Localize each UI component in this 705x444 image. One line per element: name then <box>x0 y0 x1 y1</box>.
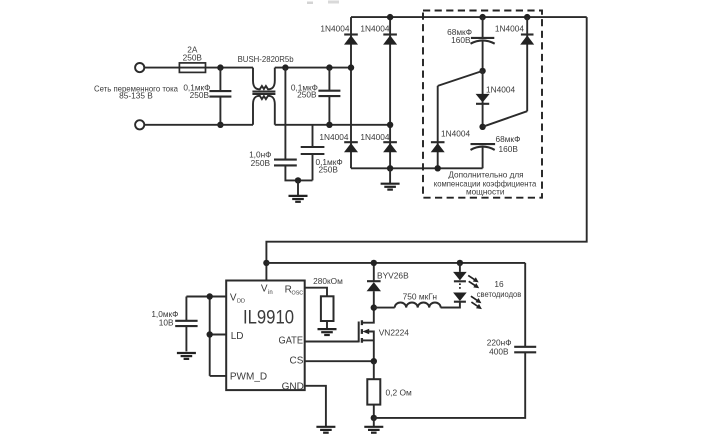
svg-text:светодиодов: светодиодов <box>477 289 522 299</box>
wire: branch rail to BYV26B, LEDs and output cap <box>266 262 525 264</box>
LED 2 (string of 16) <box>453 293 467 302</box>
diode 1N4004 (bridge top-left) <box>344 33 358 35</box>
svg-text:OSC: OSC <box>292 291 304 297</box>
LED 1 (string of 16) <box>459 263 461 272</box>
diode 1N4004 (bridge top-right) <box>383 33 397 35</box>
wire: AC line 2 after choke to bridge <box>275 124 390 126</box>
wire: bridge column 1 <box>350 17 352 168</box>
node: left column on DC- rail <box>435 165 441 171</box>
capacitor 0,1мкФ 250В (input X-cap) <box>219 68 221 92</box>
svg-text:750 мкГн: 750 мкГн <box>403 292 438 302</box>
node: Vin branch to output stage <box>263 260 269 266</box>
wire: fuse to choke (AC line 1) <box>206 67 254 69</box>
svg-text:LD: LD <box>231 331 244 342</box>
wire: VDD/LD/PWM_D tie line <box>209 297 211 376</box>
wire: AC line 2 from terminal to choke <box>144 124 253 126</box>
terminal: AC input line 2 <box>135 120 144 129</box>
svg-text:16: 16 <box>494 279 504 289</box>
node: Y-cap tap on AC line 1 <box>282 64 288 70</box>
ground (Rosc resistor) <box>318 329 337 335</box>
op-amp/IC IL9910 U1 <box>226 281 305 391</box>
wire: PWM_D lead <box>210 375 227 377</box>
svg-text:1N4004: 1N4004 <box>360 132 389 142</box>
svg-text:V: V <box>261 284 268 295</box>
node: PFC lower node B <box>479 124 485 130</box>
capacitor 220нФ 400В (output) <box>514 347 536 353</box>
svg-text:250В: 250В <box>319 165 339 175</box>
svg-text:Дополнительно для: Дополнительно для <box>448 171 523 180</box>
node: sense resistor bottom <box>371 415 377 421</box>
node: column 2 bottom <box>387 165 393 171</box>
node: PFC center node A <box>479 68 485 74</box>
node: junction at input X-cap bottom <box>217 122 223 128</box>
resistor 280кОм (Rosc) <box>305 288 327 297</box>
svg-text:0,2 Ом: 0,2 Ом <box>386 387 412 397</box>
scan artifact top edge <box>307 2 313 5</box>
svg-text:BUSH-2820R5b: BUSH-2820R5b <box>238 54 294 64</box>
resistor 0,2 Ом (sense) <box>373 361 375 379</box>
node: top rail tap for 68мкФ (upper) <box>479 14 485 20</box>
LED 2 emission arrows <box>471 296 479 301</box>
svg-text:160В: 160В <box>451 35 471 45</box>
node: branch rail tap at BYV26B <box>371 260 377 266</box>
node: drain/inductor/diode junction <box>371 304 377 310</box>
node: column 2 top <box>387 14 393 20</box>
capacitor 1,0нФ 250В (Y-cap, crosses AC line 2 without junction) <box>284 68 286 160</box>
wire: GATE lead <box>305 341 359 343</box>
node: tie at LD <box>207 331 213 337</box>
svg-text:1N4004: 1N4004 <box>495 24 524 34</box>
wire: DC+ top rail <box>351 16 587 18</box>
diode 1N4004 (PFC right column) <box>526 17 528 111</box>
dashed box: optional PFC section <box>423 11 542 198</box>
node: top rail tap for right 1N4004 <box>524 14 530 20</box>
svg-text:250В: 250В <box>183 52 203 62</box>
diode 1N4004 (bridge bottom-right) <box>383 141 397 143</box>
ground (Y-caps) <box>297 180 299 195</box>
diode 1N4004 (PFC middle, pointing down) <box>482 71 484 127</box>
svg-text:PWM_D: PWM_D <box>230 372 267 383</box>
terminal: AC input line 1 <box>135 63 144 72</box>
svg-text:68мкФ: 68мкФ <box>496 134 521 144</box>
diode 1N4004 (bridge bottom-left) <box>344 141 358 143</box>
svg-text:85-135 В: 85-135 В <box>119 91 153 101</box>
node: branch rail tap at LED string <box>457 260 463 266</box>
svg-text:10В: 10В <box>159 317 174 327</box>
capacitor 0,1мкФ 250В (Y-cap on AC line 2) <box>312 125 314 147</box>
wire: VDD rail to bypass cap <box>186 296 226 298</box>
ground (VDD bypass cap) <box>177 353 196 359</box>
wire: diagonal from node A to left column <box>438 71 483 86</box>
svg-text:IL9910: IL9910 <box>243 307 294 329</box>
node: AC line 1 tap on column 1 <box>348 64 354 70</box>
svg-text:250В: 250В <box>251 158 271 168</box>
svg-text:250В: 250В <box>190 90 210 100</box>
svg-text:DD: DD <box>237 299 245 305</box>
node: CS/source junction <box>371 358 377 364</box>
capacitor 0,1мкФ 250В (X-cap after choke) <box>328 68 330 91</box>
svg-text:280кОм: 280кОм <box>313 276 343 286</box>
inductor 750 мкГн <box>374 307 395 309</box>
svg-text:V: V <box>230 292 237 303</box>
fuse 2A 250В <box>179 63 205 73</box>
wire: CS lead to source <box>305 360 374 362</box>
wire: output return loop <box>374 263 525 418</box>
svg-text:1N4004: 1N4004 <box>486 84 515 94</box>
svg-text:1N4004: 1N4004 <box>360 24 389 34</box>
wire: GND pin to ground <box>305 386 326 427</box>
node: junction at input X-cap top <box>217 64 223 70</box>
svg-text:400В: 400В <box>489 346 509 356</box>
node: AC line 2 tap on column 2 <box>387 122 393 128</box>
node: Y-caps common point <box>295 177 301 183</box>
ground (sense resistor) <box>373 418 375 427</box>
svg-text:VN2224: VN2224 <box>379 327 410 337</box>
transistor VN2224 (n-MOSFET) <box>358 322 360 343</box>
svg-text:1N4004: 1N4004 <box>319 132 348 142</box>
wire: diagonal from node B to right column <box>483 111 528 127</box>
svg-text:BYV26B: BYV26B <box>377 271 409 281</box>
LED 1 emission arrows <box>468 275 476 280</box>
wire: AC line 1 from terminal to fuse <box>144 67 179 69</box>
capacitor 68мкФ 160В (lower electrolytic) <box>471 143 496 145</box>
svg-text:GATE: GATE <box>279 336 304 347</box>
ground (GND pin) <box>316 427 335 433</box>
node: X-cap after choke, top <box>326 64 332 70</box>
svg-text:1N4004: 1N4004 <box>441 129 470 139</box>
node: tie at VDD <box>207 293 213 299</box>
diode 1N4004 (PFC left column) <box>437 86 439 168</box>
svg-text:1N4004: 1N4004 <box>320 24 349 34</box>
capacitor 68мкФ 160В (upper electrolytic) <box>482 17 484 38</box>
svg-text:250В: 250В <box>297 90 317 100</box>
wire: dotted continuation of LED string <box>459 283 461 290</box>
node: X-cap after choke, bottom <box>326 122 332 128</box>
diode BYV26B (freewheeling) <box>373 263 375 281</box>
svg-text:CS: CS <box>289 356 303 367</box>
capacitor 1,0мкФ 10В (VDD bypass) <box>185 297 187 321</box>
svg-text:in: in <box>268 290 273 296</box>
wire: DC- bottom rail <box>351 167 483 169</box>
wire: rectifier output feed down and across to Vin <box>266 17 586 280</box>
wire: AC line 1 after choke to bridge <box>275 67 351 69</box>
wire: LD lead <box>210 334 227 336</box>
ground (DC- rail) <box>389 168 391 183</box>
svg-text:GND: GND <box>282 382 304 393</box>
wire: bridge column 2 <box>389 17 391 168</box>
svg-text:160В: 160В <box>499 144 519 154</box>
svg-text:мощности: мощности <box>466 187 504 196</box>
